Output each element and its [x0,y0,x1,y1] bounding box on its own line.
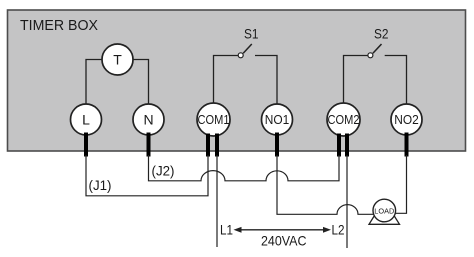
wire T to N [131,60,149,107]
svg-text:L: L [82,112,90,128]
switch S2 blade [373,44,382,53]
svg-text:LOAD: LOAD [374,206,395,215]
load M1 [373,199,396,222]
terminal pin stub NO1 [275,133,279,157]
terminal pin stub COM2 right [345,134,349,157]
wire NO1 to load with hop [277,155,374,214]
label (J2) [152,163,175,179]
label S1 [244,26,259,42]
dimension arrow 240VAC span [234,227,332,233]
label 240VAC [261,233,307,249]
terminal T [102,44,133,75]
svg-text:NO2: NO2 [394,113,419,127]
terminal COM1 [197,103,230,136]
terminal N [133,104,164,135]
terminal pin stub COM1 right [215,134,219,157]
wire L1 supply from COM1 [216,155,218,247]
switch S1 blade [243,44,252,53]
wire L2 supply from COM2 [346,155,348,248]
label (J1) [89,177,112,193]
svg-text:NO1: NO1 [265,113,290,127]
terminal pin stub L [84,133,88,157]
switch S2 pivot [368,53,373,58]
svg-text:S2: S2 [374,26,389,42]
label L2 [332,222,345,238]
load base [369,216,400,225]
timer box enclosure [8,10,466,151]
svg-text:L1: L1 [220,222,233,238]
svg-text:TIMER BOX: TIMER BOX [20,17,98,34]
label S2 [374,26,389,42]
terminal pin stub COM2 left [337,134,341,157]
svg-text:COM1: COM1 [198,113,230,127]
terminal pin stub COM1 left [206,134,210,157]
label L1 [220,222,233,238]
terminal L [71,104,102,135]
wire NO2 to load [395,155,407,213]
wire L to T [86,60,104,107]
wire jumper J2 from N to COM2 with hops [149,155,340,181]
svg-text:N: N [143,112,153,128]
terminal pin stub N [147,133,151,157]
wire switch S2 to NO2 [385,56,407,107]
terminal pin stub NO2 [405,133,409,157]
svg-text:(J1): (J1) [89,177,112,193]
label TIMER BOX [20,17,98,34]
wire COM2 to switch S2 pivot [344,56,369,107]
svg-text:L2: L2 [332,222,345,238]
wire COM1 to switch S1 pivot [214,56,239,107]
svg-text:T: T [113,52,122,68]
wire jumper J1 from L to COM1 [86,155,208,196]
svg-text:(J2): (J2) [152,163,175,179]
svg-text:240VAC: 240VAC [261,233,307,249]
terminal COM2 [327,103,360,136]
svg-text:S1: S1 [244,26,259,42]
wire switch S1 to NO1 [255,56,277,107]
terminal NO2 [391,104,422,135]
terminal NO1 [262,104,293,135]
switch S1 pivot [238,53,243,58]
svg-text:COM2: COM2 [328,113,360,127]
